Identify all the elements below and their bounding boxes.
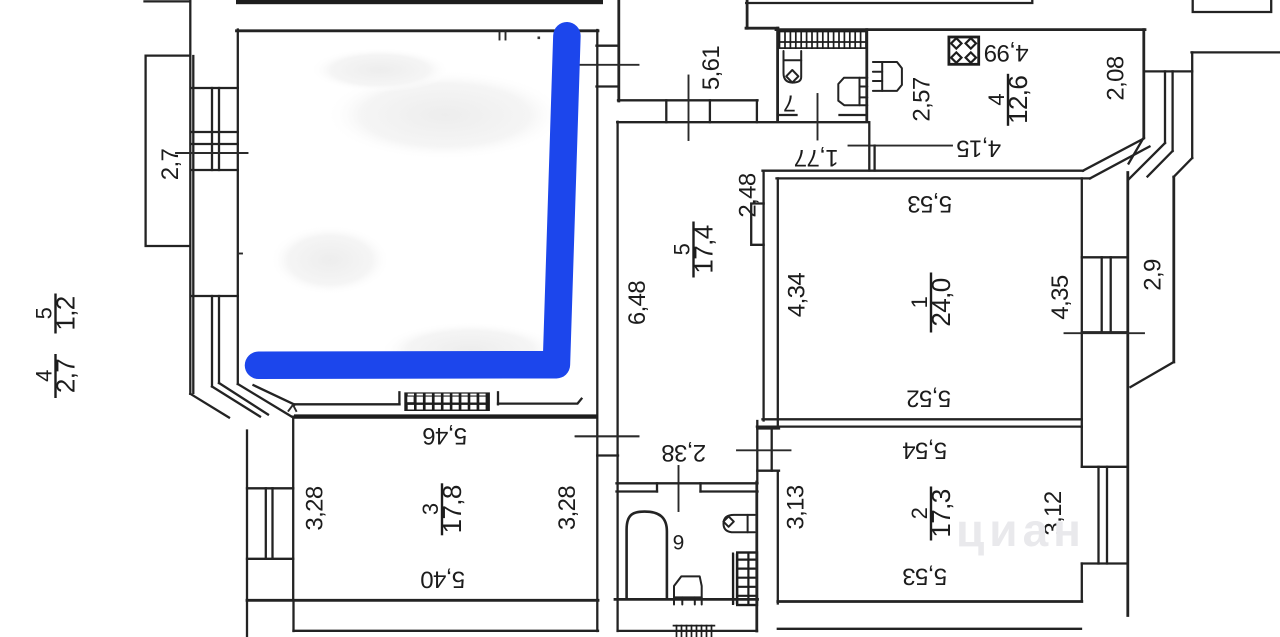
- svg-text:5,40: 5,40: [421, 566, 466, 593]
- left margin fraction 5/1,2: [32, 294, 81, 334]
- dimension line corridor y436: [576, 435, 639, 437]
- second row line under room2: [778, 628, 1081, 630]
- sill line left of radiator: [295, 403, 400, 405]
- window tick on right wall bottom: [597, 85, 619, 87]
- svg-text:4,15: 4,15: [957, 135, 1002, 162]
- stair diagonal 4: [1174, 158, 1193, 177]
- kitchen sink body: [873, 62, 902, 91]
- dimension line room2 door: [737, 449, 791, 451]
- dimension line room3 top right: [576, 435, 639, 437]
- room2 fraction label 2/17,3: [907, 487, 956, 541]
- svg-text:4,99: 4,99: [984, 39, 1029, 66]
- svg-text:2,7: 2,7: [157, 148, 184, 180]
- wall: room2 right wall between window and bottom: [1081, 564, 1083, 602]
- svg-text:24,0: 24,0: [926, 278, 956, 326]
- svg-text:17,8: 17,8: [437, 485, 467, 533]
- window W1 top sill: [191, 87, 238, 89]
- wall: right outer wall upper part: [1172, 177, 1175, 362]
- room1 window mullion 2: [1110, 257, 1112, 332]
- svg-text:17,3: 17,3: [926, 489, 956, 537]
- room2 window mullion 1: [1097, 467, 1099, 564]
- wall pier in room5: [751, 204, 763, 245]
- small dot artifact: [538, 37, 541, 40]
- kitchen stove: [949, 37, 979, 64]
- svg-text:6,48: 6,48: [624, 281, 651, 326]
- wall: bathroom right wall: [755, 482, 758, 631]
- svg-text:6: 6: [673, 530, 685, 553]
- door hinge tick 2: [505, 32, 507, 40]
- stair window line 1: [1164, 71, 1166, 143]
- wall: room7 bottom with door gap: [778, 114, 867, 116]
- stove burner 1: [951, 38, 961, 48]
- chamfer diagonal B: [212, 387, 260, 417]
- svg-text:2,57: 2,57: [909, 77, 936, 122]
- wall: room7 left wall: [776, 28, 779, 121]
- stove burner 2: [966, 38, 976, 48]
- svg-text:2,48: 2,48: [735, 173, 762, 218]
- svg-text:4,34: 4,34: [784, 273, 811, 318]
- svg-text:2,7: 2,7: [51, 359, 81, 393]
- dimension tick 5,61: [688, 76, 690, 141]
- stove burner 4: [966, 52, 976, 62]
- room3 window bottom sill: [247, 558, 293, 560]
- wall: left outer wall upper: [189, 0, 191, 394]
- window W2 mullion 2: [218, 296, 220, 383]
- wall: divider rooms 1-2 north line: [763, 418, 1082, 420]
- bathroom door jamb left: [656, 483, 658, 491]
- wall: corridor 2.57 bottom second vertical: [873, 146, 875, 171]
- wall: room7 right wall: [865, 30, 868, 121]
- stair diagonal 3: [1148, 151, 1173, 177]
- svg-text:2,9: 2,9: [1140, 259, 1167, 291]
- svg-text:3,13: 3,13: [783, 485, 810, 530]
- svg-text:12,6: 12,6: [1003, 76, 1033, 124]
- svg-text:4,35: 4,35: [1047, 275, 1074, 320]
- tiny tick right of inner wall: [238, 253, 242, 255]
- svg-text:1,77: 1,77: [794, 144, 839, 171]
- dimension tick corridor vertical: [678, 466, 680, 511]
- left margin fraction 4/2,7: [32, 354, 81, 398]
- vent hatch band room7: [780, 32, 867, 49]
- bathroom radiator inner edge: [732, 553, 734, 606]
- door arrow mark: [289, 405, 297, 411]
- pedestal sink bathroom: [674, 576, 702, 604]
- dimension line right side room1: [1065, 332, 1145, 334]
- wall: bathroom top line 2 with door gap: [617, 490, 758, 492]
- window W1 mullion 2: [218, 88, 220, 170]
- wall: room2 west wall below door: [777, 471, 779, 604]
- wall: right outer diagonal to lower: [1131, 362, 1174, 387]
- wall: room2 bottom: [778, 600, 1082, 603]
- wall: kitchen diagonal inner: [1090, 147, 1150, 179]
- wall: room3 left inner wall: [292, 417, 294, 600]
- wall: right exterior long wall: [1126, 173, 1129, 616]
- radiator big room frame: [404, 392, 490, 411]
- washing machine diamond: [723, 516, 733, 526]
- door jamb room2 top: [757, 427, 779, 429]
- dimension line through right wall: [580, 64, 639, 66]
- wall: corridor east wall below divider: [756, 421, 758, 482]
- wall: room1 right wall: [1081, 178, 1083, 427]
- washing machine divider: [747, 515, 749, 532]
- svg-text:5,46: 5,46: [423, 422, 468, 449]
- room7 washbasin faucet diamond: [786, 70, 798, 83]
- window W1 mullion 1: [211, 88, 213, 170]
- wall: kitchen bottom outer line: [763, 170, 1084, 172]
- radiator big room grid slots: [407, 394, 485, 410]
- bathroom washing machine: [724, 515, 755, 532]
- scan smudge blobs: [325, 70, 565, 160]
- svg-text:5,61: 5,61: [698, 46, 725, 91]
- wall: corridor 6.48 left wall long: [616, 122, 618, 631]
- wall: divider rooms 1-2 south line: [757, 425, 1082, 427]
- dimension line at left window: [176, 152, 248, 154]
- wall: top thick neighbour bar: [236, 0, 603, 4]
- room 5 fraction label 5/17,4: [670, 222, 719, 278]
- wall: small top-left exterior line: [145, 0, 191, 2]
- second row connector left: [292, 600, 294, 631]
- svg-text:5,53: 5,53: [908, 190, 953, 217]
- kitchen fraction label 4/12,6: [984, 74, 1033, 126]
- sill end tick left: [398, 392, 400, 404]
- wall: kitchen right wall: [1142, 30, 1145, 138]
- stove burner 3: [951, 52, 961, 62]
- window W2 mullion 1: [211, 296, 213, 387]
- blue marker highlight L-stroke: [259, 36, 567, 366]
- bathroom radiator frame: [734, 554, 737, 605]
- wall: hall top band upper line: [618, 99, 758, 101]
- wall: kitchen diagonal outer: [1083, 139, 1144, 171]
- wall: room3 left outer wall: [246, 431, 248, 637]
- door jamb hall 1: [665, 100, 667, 122]
- wall: hall right corner vertical: [746, 0, 749, 28]
- stair window line 2: [1171, 71, 1173, 151]
- balcony outline: [146, 56, 189, 246]
- corner jamb at room5: [756, 100, 758, 122]
- room2 window bottom sill: [1082, 562, 1127, 564]
- stair wall right vertical: [1191, 52, 1193, 158]
- window tick on right wall top: [597, 45, 619, 47]
- wall: inner left wall of big room: [237, 30, 239, 385]
- wall: bathroom bottom: [615, 598, 758, 601]
- wall: room5/room1 wall west line: [762, 171, 764, 421]
- svg-text:7: 7: [783, 91, 796, 117]
- room1 window top sill: [1082, 256, 1127, 258]
- window W1 inner sill b: [191, 143, 238, 145]
- room7 toilet bowl: [838, 78, 867, 105]
- lower row vent hatch ticks: [674, 626, 715, 637]
- svg-text:1,2: 1,2: [51, 296, 81, 330]
- stair landing line y52: [1192, 51, 1280, 53]
- wall: left outer wall second line: [192, 56, 194, 393]
- wall: big room top: [237, 29, 599, 32]
- window W1 bottom sill: [191, 169, 238, 171]
- sill end tick right: [497, 392, 499, 404]
- stair diagonal 1: [1129, 138, 1144, 164]
- svg-text:3,28: 3,28: [302, 486, 329, 531]
- door jamb room2 bottom: [757, 470, 779, 472]
- wall: big room / room3 right wall (long): [596, 30, 598, 631]
- room3 window mullion 1: [265, 488, 267, 559]
- room2 window top sill: [1082, 466, 1127, 468]
- window W2 top sill: [191, 295, 238, 297]
- pedestal sink base line: [674, 596, 702, 598]
- svg-text:циан: циан: [956, 504, 1086, 556]
- svg-text:2,08: 2,08: [1103, 56, 1130, 101]
- dimension tick door 1,77: [817, 94, 819, 140]
- svg-text:5,54: 5,54: [903, 437, 948, 464]
- chamfer diagonal E inner: [254, 385, 295, 404]
- stair landing top box: [1193, 0, 1272, 12]
- sill line right of radiator: [498, 399, 582, 404]
- room3 fraction label 3/17,8: [418, 483, 467, 535]
- stair diagonal 2: [1129, 143, 1165, 179]
- svg-text:2,38: 2,38: [662, 439, 707, 466]
- bathtub outer: [627, 512, 667, 598]
- room3 window top sill: [247, 487, 293, 489]
- wall: corridor left wall top segment: [617, 0, 620, 101]
- room2 window mullion 2: [1106, 467, 1108, 564]
- svg-text:5,53: 5,53: [903, 563, 948, 590]
- tick room3 door right: [597, 454, 618, 456]
- dimension line kitchen bottom: [849, 145, 953, 147]
- wall: corridor 2.57 bottom left vertical: [868, 122, 870, 170]
- wall: hall top band lower line: [617, 121, 868, 123]
- bathroom door jamb right: [699, 483, 701, 491]
- door hinge tick 1: [499, 32, 501, 40]
- svg-text:17,4: 17,4: [689, 225, 719, 273]
- wall: room1 right wall lower segment: [1081, 427, 1083, 467]
- wall: room7/kitchen top wall: [776, 28, 1145, 31]
- door jamb hall 2: [709, 100, 711, 122]
- window W1 inner sill a: [191, 131, 238, 133]
- second row line under room3: [294, 630, 599, 632]
- wall: kitchen bottom inner line: [777, 177, 1091, 179]
- second row line under bathroom: [618, 630, 757, 632]
- room1 fraction label 1/24,0: [907, 273, 956, 333]
- stair top tick: [1145, 70, 1193, 72]
- door leaf room2: [771, 429, 773, 471]
- wall: hall right corner step: [746, 27, 778, 30]
- chamfer diagonal A outer: [190, 394, 229, 418]
- wall: room5/room1 wall east line: [777, 178, 779, 426]
- bathroom radiator grid: [737, 553, 757, 606]
- wall: room3 bottom: [247, 599, 598, 602]
- room3 window mullion 2: [271, 488, 273, 559]
- chamfer diagonal C: [219, 383, 268, 415]
- room7 washbasin: [784, 51, 802, 83]
- wall: exterior thin top line over hall: [746, 0, 1032, 3]
- wall: room3 top band: [294, 414, 598, 418]
- wall: bathroom top line 1: [617, 482, 758, 484]
- svg-text:3,28: 3,28: [554, 486, 581, 531]
- room1 window bottom sill: [1082, 331, 1127, 333]
- room1 window mullion 1: [1101, 257, 1103, 332]
- svg-text:5,52: 5,52: [907, 385, 952, 412]
- chamfer diagonal D: [238, 384, 292, 417]
